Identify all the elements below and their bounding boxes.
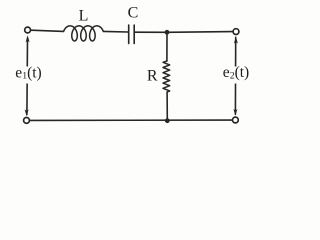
arrowhead left up <box>26 35 30 42</box>
wire capacitor to node A <box>135 31 167 33</box>
svg-text:e1(t): e1(t) <box>15 64 41 81</box>
right measure arrow shaft <box>234 37 236 114</box>
inductor L <box>64 26 104 41</box>
wire bottom rail <box>30 119 232 121</box>
terminal bottom-right <box>233 117 239 123</box>
wire resistor branch bottom <box>166 92 168 118</box>
wire top-left to inductor <box>31 30 63 31</box>
arrowhead right up <box>234 37 238 44</box>
wire node A to top-right terminal <box>167 31 232 34</box>
arrowhead left down <box>25 109 29 116</box>
capacitor C right plate <box>133 25 135 43</box>
svg-text:C: C <box>128 4 139 21</box>
node B junction dot <box>165 118 170 123</box>
white masks under port labels <box>14 67 256 84</box>
terminal top-left <box>25 27 31 33</box>
capacitor C left plate <box>128 25 130 43</box>
svg-text:L: L <box>79 7 89 24</box>
resistor R zigzag <box>163 61 170 92</box>
arrowhead right down <box>233 109 237 116</box>
svg-text:e2(t): e2(t) <box>223 64 249 81</box>
terminal bottom-left <box>24 118 30 124</box>
node A junction dot <box>165 30 170 35</box>
left measure arrow shaft <box>26 38 29 115</box>
svg-text:R: R <box>147 68 158 85</box>
wire resistor branch top <box>166 32 168 61</box>
terminal top-right <box>233 29 239 35</box>
wire inductor to capacitor <box>103 30 128 33</box>
